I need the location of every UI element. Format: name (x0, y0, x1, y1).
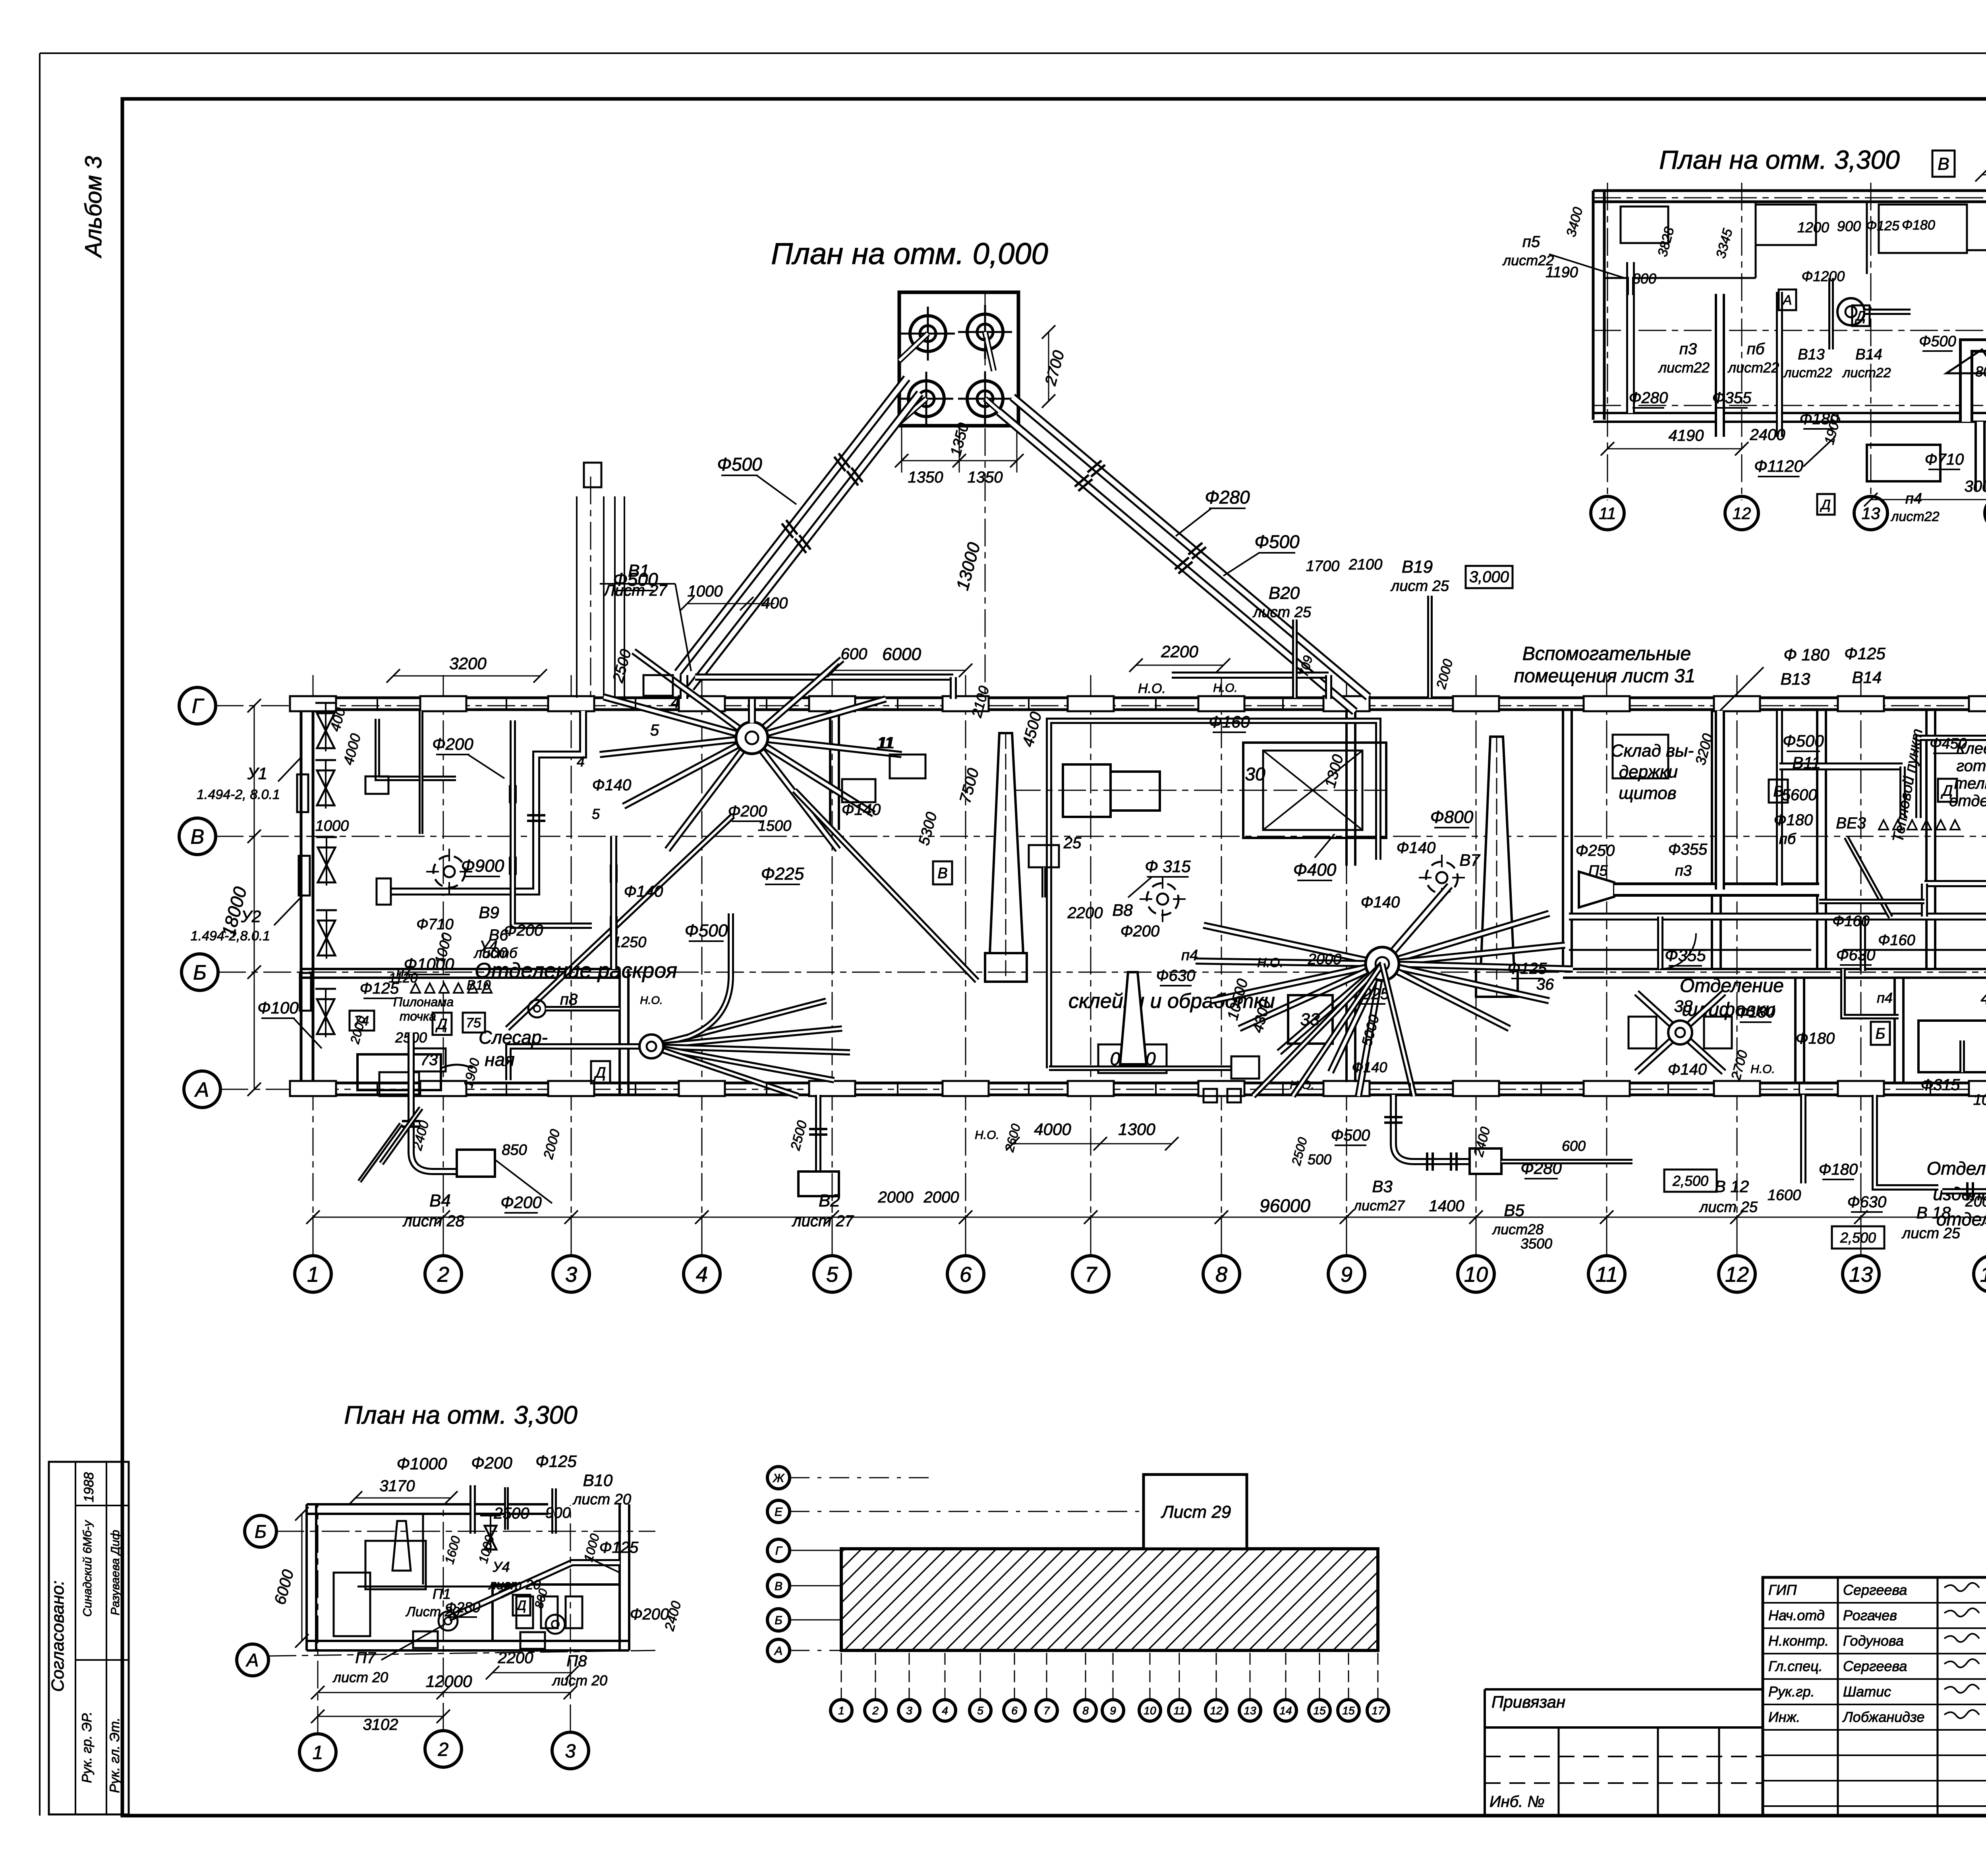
svg-text:Ф140: Ф140 (1361, 894, 1400, 911)
svg-text:1300: 1300 (1118, 1120, 1155, 1139)
svg-text:3: 3 (565, 1262, 577, 1286)
svg-text:лист22: лист22 (1890, 509, 1939, 524)
svg-text:Д: Д (515, 1598, 526, 1613)
svg-text:ная: ная (485, 1049, 514, 1070)
svg-text:10: 10 (1464, 1262, 1488, 1286)
svg-text:3500: 3500 (1520, 1235, 1552, 1252)
svg-text:п4: п4 (1877, 990, 1893, 1006)
svg-text:3005: 3005 (1965, 478, 1986, 495)
svg-text:Ф200: Ф200 (1121, 923, 1160, 940)
svg-text:лист27: лист27 (1353, 1197, 1405, 1214)
svg-text:Ф180: Ф180 (1819, 1161, 1858, 1178)
svg-text:3,000: 3,000 (1469, 568, 1509, 586)
svg-text:В4: В4 (429, 1191, 451, 1210)
svg-text:900: 900 (545, 1505, 570, 1521)
svg-text:Ф500: Ф500 (1783, 731, 1824, 750)
svg-text:Г: Г (192, 695, 205, 718)
svg-text:Ф200: Ф200 (630, 1606, 669, 1623)
svg-text:2200: 2200 (1067, 904, 1103, 922)
svg-text:пб: пб (1747, 340, 1765, 358)
svg-text:Ф 315: Ф 315 (1145, 857, 1191, 876)
svg-text:Ф125: Ф125 (535, 1452, 577, 1471)
svg-text:Ф125: Ф125 (599, 1539, 639, 1556)
svg-text:В: В (1938, 154, 1949, 174)
svg-text:лист 20: лист 20 (332, 1669, 388, 1685)
svg-text:лист 20: лист 20 (488, 1577, 541, 1592)
svg-text:Д: Д (1820, 497, 1831, 512)
svg-text:Рук. гр. ЭР.: Рук. гр. ЭР. (79, 1712, 95, 1783)
svg-text:Рук. гл. Эт.: Рук. гл. Эт. (107, 1718, 122, 1793)
svg-text:В7: В7 (1459, 851, 1480, 869)
svg-text:73: 73 (420, 1051, 438, 1069)
svg-text:п4: п4 (1905, 490, 1922, 507)
svg-text:1.494-2, 8.0.1: 1.494-2, 8.0.1 (197, 787, 280, 802)
svg-text:9: 9 (1110, 1704, 1116, 1717)
svg-text:Ф140: Ф140 (1668, 1061, 1707, 1078)
svg-text:ГИП: ГИП (1768, 1582, 1797, 1598)
svg-text:1600: 1600 (1768, 1187, 1801, 1204)
svg-text:4: 4 (942, 1704, 948, 1717)
svg-text:Ф140: Ф140 (624, 883, 663, 900)
svg-text:У2: У2 (241, 907, 261, 926)
svg-text:лист22: лист22 (1727, 359, 1779, 376)
svg-text:7: 7 (1085, 1262, 1097, 1286)
svg-text:Ф180: Ф180 (1774, 811, 1813, 829)
svg-text:1350: 1350 (908, 469, 943, 486)
svg-text:А: А (245, 1650, 259, 1671)
svg-text:Клеепри-: Клеепри- (1956, 740, 1986, 757)
svg-text:Ж: Ж (772, 1472, 784, 1485)
svg-text:Шатис: Шатис (1843, 1683, 1891, 1700)
svg-text:лист22: лист22 (1783, 365, 1832, 380)
svg-text:1700: 1700 (1306, 558, 1340, 575)
svg-text:План на отм. 0,000: План на отм. 0,000 (771, 237, 1048, 271)
svg-text:Ф 180: Ф 180 (1783, 645, 1830, 664)
svg-text:Ф225: Ф225 (761, 864, 804, 884)
svg-text:1988: 1988 (81, 1472, 97, 1502)
svg-text:лист22: лист22 (1842, 365, 1891, 380)
svg-text:1190: 1190 (1546, 264, 1578, 281)
svg-text:9: 9 (1341, 1262, 1352, 1286)
svg-text:2: 2 (438, 1739, 449, 1760)
svg-text:п5: п5 (1522, 233, 1540, 251)
svg-text:Нач.отд: Нач.отд (1768, 1607, 1825, 1623)
svg-text:В11: В11 (1792, 753, 1821, 772)
svg-text:п4: п4 (1181, 947, 1198, 964)
svg-text:лист 25: лист 25 (1390, 578, 1449, 594)
svg-text:1200: 1200 (1797, 219, 1829, 235)
svg-text:Ф1200: Ф1200 (1802, 268, 1845, 284)
svg-text:Ф180: Ф180 (1796, 1030, 1835, 1047)
svg-text:А: А (1782, 293, 1792, 308)
svg-text:В: В (1773, 783, 1783, 800)
svg-text:В: В (191, 826, 205, 849)
svg-text:лист 28: лист 28 (402, 1212, 464, 1230)
svg-text:Н.О.: Н.О. (1138, 681, 1166, 696)
svg-text:В20: В20 (1269, 583, 1300, 603)
svg-text:5: 5 (977, 1704, 983, 1717)
svg-text:В1: В1 (628, 561, 649, 581)
svg-text:В 12: В 12 (1715, 1177, 1749, 1196)
svg-text:тельное: тельное (1954, 775, 1986, 792)
svg-text:11: 11 (1596, 1262, 1618, 1286)
svg-text:П7: П7 (355, 1649, 376, 1667)
svg-text:6: 6 (1011, 1704, 1018, 1717)
svg-text:14: 14 (1980, 1262, 1986, 1286)
svg-text:6000: 6000 (882, 645, 921, 664)
svg-text:Ф630: Ф630 (1156, 967, 1196, 984)
svg-text:ВЕ3: ВЕ3 (1836, 814, 1866, 832)
svg-text:96000: 96000 (1260, 1195, 1310, 1216)
svg-text:2200: 2200 (1161, 642, 1198, 661)
svg-text:Н.О.: Н.О. (1257, 955, 1283, 970)
svg-text:1000: 1000 (1973, 1092, 1986, 1108)
svg-text:Вспомогательные: Вспомогательные (1522, 643, 1691, 664)
svg-text:А: А (774, 1644, 782, 1658)
svg-text:Отделение сушки: Отделение сушки (1927, 1158, 1986, 1179)
svg-text:11: 11 (1173, 1704, 1185, 1717)
svg-text:Ф355: Ф355 (1665, 946, 1706, 965)
svg-text:готови-: готови- (1956, 757, 1986, 775)
svg-text:В14: В14 (1852, 668, 1882, 687)
svg-text:Ф125: Ф125 (1844, 644, 1886, 663)
svg-text:Синадский 6Мб-у: Синадский 6Мб-у (81, 1520, 94, 1617)
svg-text:Г: Г (775, 1544, 783, 1558)
svg-text:Н.О.: Н.О. (1213, 681, 1238, 695)
svg-text:850: 850 (502, 1142, 527, 1158)
svg-text:5: 5 (592, 806, 600, 822)
svg-text:В13: В13 (1798, 346, 1825, 363)
svg-text:1.494-2,8.0.1: 1.494-2,8.0.1 (191, 928, 270, 944)
svg-text:План на отм. 3,300: План на отм. 3,300 (1659, 145, 1900, 174)
svg-text:500: 500 (482, 945, 507, 961)
svg-text:Н.О.: Н.О. (1750, 1063, 1775, 1076)
svg-text:600: 600 (841, 645, 867, 663)
svg-text:1400: 1400 (1429, 1197, 1464, 1215)
svg-text:2,500: 2,500 (1672, 1173, 1708, 1189)
svg-text:Ф250: Ф250 (1576, 842, 1615, 859)
svg-text:Ф710: Ф710 (416, 916, 454, 933)
svg-text:Разуваева Дuф: Разуваева Дuф (109, 1530, 122, 1615)
svg-text:В3: В3 (1372, 1177, 1392, 1196)
svg-text:Годунова: Годунова (1843, 1633, 1904, 1649)
svg-text:Ф1000: Ф1000 (397, 1454, 447, 1473)
svg-text:Ф500: Ф500 (1254, 531, 1300, 552)
svg-text:Инб. №: Инб. № (1489, 1793, 1545, 1810)
svg-text:11: 11 (877, 734, 893, 752)
svg-text:8: 8 (1215, 1262, 1227, 1286)
svg-text:4: 4 (577, 753, 585, 770)
svg-text:Ф180: Ф180 (1736, 1004, 1775, 1021)
svg-text:Ф500: Ф500 (717, 454, 762, 475)
svg-text:10: 10 (1144, 1704, 1156, 1717)
svg-text:Инж.: Инж. (1768, 1709, 1800, 1725)
svg-text:Ф140: Ф140 (1397, 839, 1436, 857)
svg-text:Ф500: Ф500 (685, 921, 728, 940)
svg-text:Ф400: Ф400 (1293, 860, 1337, 880)
svg-text:Ф710: Ф710 (1925, 451, 1964, 468)
svg-text:Ф180: Ф180 (1902, 218, 1935, 233)
svg-text:В14: В14 (1855, 346, 1882, 363)
svg-text:1: 1 (313, 1742, 323, 1763)
svg-text:13: 13 (1849, 1262, 1873, 1286)
svg-text:Ф280: Ф280 (1205, 487, 1250, 508)
svg-text:30: 30 (1245, 764, 1265, 784)
svg-text:5: 5 (826, 1262, 838, 1286)
svg-text:Н.О.: Н.О. (640, 994, 663, 1006)
svg-text:13: 13 (1244, 1704, 1256, 1717)
svg-text:4: 4 (671, 694, 680, 711)
svg-text:500: 500 (1308, 1151, 1331, 1168)
svg-text:Альбом 3: Альбом 3 (81, 156, 106, 259)
svg-text:Пилонама: Пилонама (393, 995, 454, 1009)
svg-text:В9: В9 (479, 903, 499, 922)
svg-text:2000: 2000 (1308, 951, 1342, 968)
svg-text:В: В (937, 865, 947, 882)
svg-text:щитов: щитов (1619, 784, 1677, 803)
svg-text:2000: 2000 (878, 1189, 914, 1206)
svg-text:17: 17 (1372, 1704, 1385, 1717)
svg-text:Б: Б (193, 961, 207, 984)
svg-text:800х800: 800х800 (1975, 363, 1986, 380)
svg-text:лист 20: лист 20 (572, 1491, 631, 1508)
svg-text:В13: В13 (1781, 670, 1810, 688)
svg-text:лист 25: лист 25 (1252, 604, 1312, 621)
svg-text:Рогачев: Рогачев (1843, 1607, 1897, 1623)
svg-text:Ф800: Ф800 (1430, 807, 1474, 827)
svg-text:Д: Д (594, 1064, 606, 1081)
svg-text:Согласовано:: Согласовано: (48, 1581, 68, 1692)
svg-text:Б: Б (255, 1521, 267, 1542)
svg-text:Ф280: Ф280 (1629, 389, 1668, 407)
svg-text:Ф200: Ф200 (471, 1453, 512, 1472)
svg-text:1: 1 (838, 1704, 844, 1717)
svg-text:пб: пб (1779, 831, 1797, 847)
svg-text:Ф355: Ф355 (1712, 389, 1752, 407)
svg-text:3: 3 (906, 1704, 912, 1717)
svg-text:Ф500: Ф500 (1331, 1127, 1370, 1144)
svg-text:Б: Б (775, 1614, 782, 1627)
svg-text:У1: У1 (247, 764, 267, 783)
svg-text:5: 5 (650, 722, 659, 739)
svg-text:П5: П5 (1588, 863, 1608, 879)
svg-text:Ф280: Ф280 (445, 1599, 481, 1615)
svg-text:14: 14 (1279, 1704, 1292, 1717)
svg-text:2: 2 (437, 1262, 449, 1286)
svg-text:38: 38 (1674, 997, 1693, 1015)
svg-text:п8: п8 (560, 991, 578, 1008)
svg-text:11: 11 (1599, 504, 1616, 523)
svg-text:Ф100: Ф100 (257, 998, 299, 1017)
svg-text:3: 3 (565, 1741, 576, 1762)
svg-text:3200: 3200 (449, 654, 487, 673)
svg-text:Склад вы-: Склад вы- (1611, 741, 1694, 760)
svg-text:900: 900 (1837, 218, 1861, 234)
svg-text:лист 25: лист 25 (1901, 1225, 1961, 1242)
svg-text:Ф630: Ф630 (1847, 1193, 1887, 1211)
svg-text:Ф315: Ф315 (1921, 1076, 1960, 1094)
svg-text:Ф200: Ф200 (432, 735, 473, 753)
svg-text:Сергеева: Сергеева (1843, 1658, 1907, 1674)
svg-text:2000: 2000 (923, 1189, 959, 1206)
svg-text:Д: Д (435, 1016, 448, 1033)
svg-text:6: 6 (960, 1262, 972, 1286)
svg-text:В19: В19 (1402, 557, 1433, 577)
svg-text:12000: 12000 (426, 1672, 472, 1691)
svg-text:Ф630: Ф630 (1836, 946, 1876, 964)
svg-text:2,500: 2,500 (1840, 1229, 1876, 1246)
svg-text:Ф200: Ф200 (728, 803, 767, 820)
svg-text:Ф200: Ф200 (504, 922, 543, 939)
svg-text:точка: точка (400, 1009, 436, 1023)
svg-text:лист 27: лист 27 (792, 1212, 854, 1230)
svg-text:7: 7 (1043, 1704, 1050, 1717)
svg-text:75: 75 (466, 1015, 481, 1031)
svg-text:Н.О.: Н.О. (975, 1129, 999, 1142)
svg-text:Ф140: Ф140 (592, 776, 632, 794)
svg-text:В5: В5 (1504, 1201, 1524, 1220)
svg-text:Ф140: Ф140 (1352, 1059, 1387, 1075)
svg-text:План на отм. 3,300: План на отм. 3,300 (344, 1401, 578, 1429)
svg-text:В8: В8 (1112, 901, 1133, 919)
svg-text:Гл.спец.: Гл.спец. (1768, 1658, 1823, 1674)
svg-text:3102: 3102 (363, 1716, 398, 1733)
svg-text:Н.контр.: Н.контр. (1768, 1633, 1829, 1649)
svg-text:В10: В10 (583, 1471, 613, 1490)
svg-text:помещения лист 31: помещения лист 31 (1514, 666, 1696, 687)
svg-text:2100: 2100 (1348, 556, 1383, 573)
svg-text:1250: 1250 (613, 934, 647, 951)
svg-text:п7: п7 (396, 963, 413, 979)
svg-text:12: 12 (1725, 1262, 1749, 1286)
svg-text:800: 800 (1632, 270, 1656, 287)
svg-text:Д: Д (1941, 782, 1953, 799)
svg-text:74: 74 (354, 1013, 369, 1029)
svg-text:40: 40 (1981, 989, 1986, 1007)
svg-text:лист22: лист22 (1658, 359, 1710, 376)
svg-text:Ф125: Ф125 (1866, 218, 1899, 234)
svg-text:1: 1 (307, 1262, 319, 1286)
svg-text:Ф900: Ф900 (461, 856, 504, 876)
svg-text:Ф355: Ф355 (1668, 841, 1708, 858)
svg-text:Рук.гр.: Рук.гр. (1768, 1683, 1815, 1700)
svg-text:2000: 2000 (1965, 1193, 1986, 1210)
svg-text:Ф125: Ф125 (1508, 960, 1547, 977)
svg-text:2400: 2400 (1750, 426, 1785, 444)
svg-text:1000: 1000 (315, 818, 349, 834)
svg-text:лист28: лист28 (1492, 1221, 1544, 1237)
svg-text:Б: Б (1876, 1025, 1886, 1042)
svg-text:Лист 29: Лист 29 (1161, 1502, 1231, 1522)
svg-text:2: 2 (872, 1704, 879, 1717)
svg-text:Отделение: Отделение (1680, 975, 1784, 996)
svg-text:600: 600 (1562, 1138, 1586, 1154)
svg-text:2500: 2500 (494, 1505, 529, 1522)
svg-text:Ф160: Ф160 (1209, 712, 1250, 731)
svg-text:В 18: В 18 (1916, 1203, 1951, 1222)
svg-text:3170: 3170 (380, 1477, 415, 1495)
svg-text:Ф1120: Ф1120 (1754, 457, 1803, 475)
svg-text:1500: 1500 (758, 818, 792, 834)
svg-text:4000: 4000 (1034, 1120, 1071, 1139)
svg-text:Ф160: Ф160 (1878, 932, 1915, 949)
svg-text:Д: Д (1855, 309, 1866, 324)
svg-text:15: 15 (1342, 1704, 1355, 1717)
svg-text:12: 12 (1733, 504, 1751, 523)
svg-text:лист 25: лист 25 (1699, 1199, 1758, 1216)
svg-text:12: 12 (1210, 1704, 1223, 1717)
svg-text:п3: п3 (1679, 340, 1697, 358)
svg-text:В2: В2 (819, 1191, 840, 1210)
svg-text:В: В (775, 1580, 782, 1593)
svg-text:Ф160: Ф160 (1832, 913, 1870, 930)
svg-text:Ф200: Ф200 (500, 1193, 542, 1212)
svg-text:Слесар-: Слесар- (479, 1027, 548, 1048)
svg-text:Отделение раскроя: Отделение раскроя (475, 959, 677, 982)
svg-text:п3: п3 (1675, 863, 1692, 879)
svg-text:лист 20: лист 20 (552, 1672, 607, 1689)
svg-text:25: 25 (1063, 834, 1082, 852)
svg-text:А: А (194, 1079, 209, 1102)
svg-text:Привязан: Привязан (1491, 1693, 1565, 1711)
svg-text:Ф140: Ф140 (842, 801, 881, 818)
svg-text:Ф500: Ф500 (1919, 333, 1956, 350)
svg-text:У4: У4 (492, 1559, 510, 1575)
svg-text:4: 4 (696, 1262, 708, 1286)
svg-text:4190: 4190 (1669, 427, 1704, 444)
svg-text:Сергеева: Сергеева (1843, 1582, 1907, 1598)
svg-text:Лобжанидзе: Лобжанидзе (1842, 1709, 1924, 1725)
svg-text:15: 15 (1313, 1704, 1326, 1717)
svg-text:Е: Е (775, 1505, 783, 1519)
svg-text:13: 13 (1862, 504, 1880, 523)
svg-text:8: 8 (1082, 1704, 1089, 1717)
